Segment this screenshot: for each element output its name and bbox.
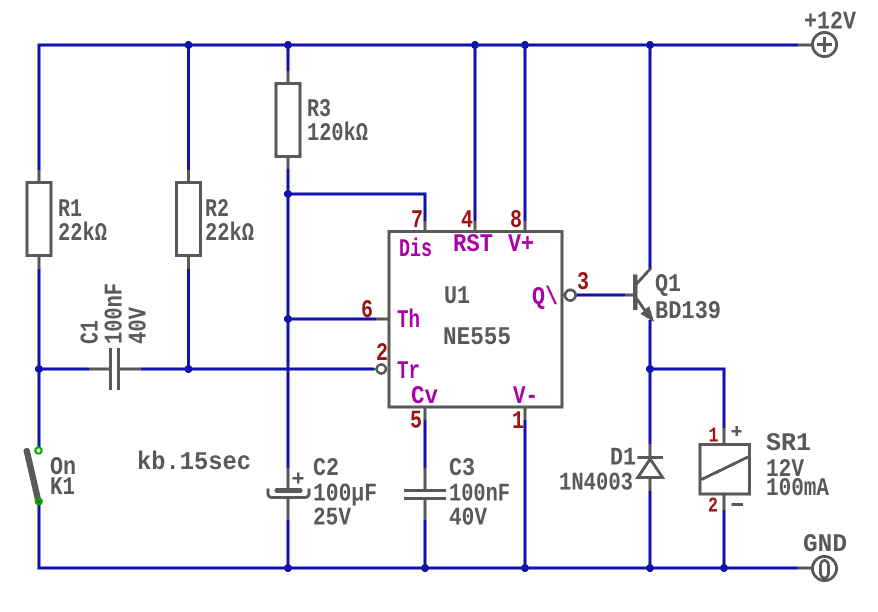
transistor Q1 bbox=[625, 269, 651, 318]
pin 3 Q bubble bbox=[565, 290, 576, 301]
wire Q1 emitter to junction bbox=[649, 320, 652, 371]
pin 5 Cv stub bbox=[424, 407, 427, 420]
switch K1 bbox=[27, 447, 42, 504]
svg-text:RST: RST bbox=[453, 230, 493, 259]
wire pin8 vertical bbox=[524, 45, 527, 221]
wire pin5 to C3 bbox=[424, 420, 427, 468]
svg-text:1N4003: 1N4003 bbox=[559, 469, 633, 498]
junction emitter D1 relay bbox=[646, 365, 654, 373]
capacitor C1 bbox=[89, 348, 141, 390]
ground 0 glyph bbox=[821, 561, 829, 579]
resistor R3 bbox=[276, 71, 300, 169]
pin 2 Tr bubble bbox=[377, 365, 386, 374]
capacitor C2 polarized bbox=[268, 468, 309, 520]
svg-text:6: 6 bbox=[361, 296, 373, 325]
svg-text:NE555: NE555 bbox=[443, 323, 511, 352]
svg-text:Th: Th bbox=[397, 306, 420, 335]
svg-text:kb.15sec: kb.15sec bbox=[137, 448, 251, 477]
resistor R1 bbox=[27, 170, 51, 269]
wire C2 bottom bbox=[287, 520, 290, 568]
wire R2 branch top bbox=[187, 45, 190, 170]
junction top rail R2 bbox=[185, 41, 193, 49]
wire pin4 vertical bbox=[474, 45, 477, 221]
resistor R2 bbox=[177, 170, 201, 269]
svg-text:22kΩ: 22kΩ bbox=[58, 219, 107, 248]
relay plus mark bbox=[732, 426, 742, 436]
junction bottom rail C3 bbox=[421, 564, 429, 572]
pin 6 Th stub bbox=[376, 318, 389, 321]
svg-text:1: 1 bbox=[709, 426, 719, 449]
wire R2 bottom to Tr net bbox=[187, 269, 190, 369]
junction bottom rail pin1 bbox=[521, 564, 529, 572]
svg-text:K1: K1 bbox=[50, 473, 75, 502]
junction bottom rail C2 bbox=[284, 564, 292, 572]
wire Q1 collector vertical bbox=[649, 45, 652, 269]
junction top rail pin8 bbox=[521, 41, 529, 49]
junction top rail R3 bbox=[284, 41, 292, 49]
svg-text:Dis: Dis bbox=[399, 235, 432, 264]
junction top rail pin4 bbox=[471, 41, 479, 49]
relay SR1 coil bbox=[700, 428, 750, 510]
junction R3 pin7 branch bbox=[284, 190, 292, 198]
svg-text:5: 5 bbox=[410, 407, 422, 436]
wire left rail R1 to switch bbox=[38, 269, 41, 447]
svg-text:U1: U1 bbox=[444, 282, 470, 311]
svg-text:100mA: 100mA bbox=[766, 474, 830, 503]
wire pin1 vertical bbox=[524, 420, 527, 568]
IC U1 NE555 body bbox=[389, 232, 562, 408]
junction left rail C1 bbox=[35, 365, 43, 373]
svg-text:22kΩ: 22kΩ bbox=[205, 219, 254, 248]
power +12V symbol bbox=[798, 33, 837, 57]
wire emitter junction to relay horizontal bbox=[650, 368, 726, 371]
pin 7 Dis stub bbox=[424, 221, 427, 232]
wire R3 bottom vertical to C2 bbox=[287, 169, 290, 468]
diode D1 bbox=[638, 444, 664, 491]
svg-text:Q\: Q\ bbox=[532, 283, 558, 312]
capacitor C3 bbox=[404, 468, 446, 520]
svg-text:40V: 40V bbox=[449, 504, 488, 533]
wire relay top vertical bbox=[723, 369, 726, 428]
svg-text:7: 7 bbox=[411, 206, 423, 235]
svg-text:4: 4 bbox=[461, 206, 473, 235]
wire relay bottom vertical bbox=[723, 510, 726, 568]
svg-text:8: 8 bbox=[510, 206, 522, 235]
wire top rail bbox=[38, 44, 799, 47]
wire Tr net C1 to pin2 bbox=[141, 368, 374, 371]
wire C3 bottom bbox=[424, 520, 427, 568]
wire Tr net left of C1 bbox=[39, 368, 89, 371]
wire left rail switch to bottom bbox=[38, 505, 41, 570]
svg-text:GND: GND bbox=[803, 530, 847, 559]
wire pin7 net vertical bbox=[424, 193, 427, 222]
wire Q output pin3 to Q1 base bbox=[576, 294, 625, 297]
relay minus mark bbox=[732, 503, 744, 506]
svg-text:BD139: BD139 bbox=[655, 297, 721, 326]
transistor Q1 emitter arrow bbox=[643, 308, 653, 319]
junction Th branch bbox=[284, 315, 292, 323]
ground GND symbol bbox=[798, 557, 837, 581]
junction top rail Q1 collector bbox=[646, 41, 654, 49]
svg-text:Q1: Q1 bbox=[655, 270, 681, 299]
wire D1 bottom vertical bbox=[649, 491, 652, 568]
pin 1 V- stub bbox=[524, 407, 527, 420]
svg-text:25V: 25V bbox=[313, 504, 352, 533]
svg-text:2: 2 bbox=[708, 496, 718, 519]
svg-text:SR1: SR1 bbox=[766, 429, 811, 458]
wire pin7 net horizontal bbox=[288, 193, 425, 196]
junction bottom rail D1 bbox=[646, 564, 654, 572]
svg-text:40V: 40V bbox=[125, 306, 154, 344]
pin 4 RST stub bbox=[474, 221, 477, 232]
wire Th net horizontal bbox=[288, 318, 376, 321]
wire R3 branch top bbox=[287, 45, 290, 71]
wire left rail upper bbox=[38, 44, 41, 171]
svg-text:+12V: +12V bbox=[804, 8, 857, 37]
wire D1 top vertical bbox=[649, 369, 652, 444]
svg-text:1: 1 bbox=[512, 407, 524, 436]
wire bottom rail bbox=[38, 567, 799, 570]
junction bottom rail relay bbox=[720, 564, 728, 572]
svg-text:2: 2 bbox=[376, 339, 388, 368]
pin 8 V+ stub bbox=[524, 221, 527, 232]
junction R2 Tr net bbox=[185, 365, 193, 373]
svg-text:3: 3 bbox=[577, 268, 589, 297]
svg-text:120kΩ: 120kΩ bbox=[307, 119, 368, 148]
node Tr net endpoint marker bbox=[374, 368, 377, 371]
